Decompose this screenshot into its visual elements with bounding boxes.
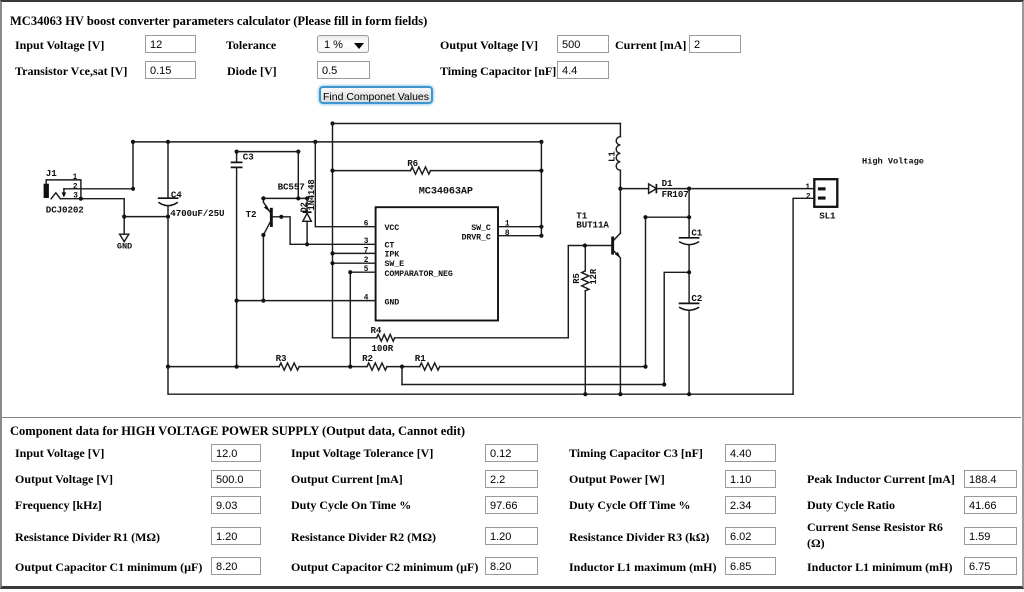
svg-text:1: 1 <box>805 184 810 192</box>
junction rail2 right end <box>539 140 543 144</box>
resistor R2 <box>299 353 387 370</box>
svg-text:2: 2 <box>73 184 78 192</box>
svg-text:12R: 12R <box>589 268 599 284</box>
junction railC at R5 <box>583 392 587 396</box>
svg-text:SW_C: SW_C <box>471 224 491 233</box>
junction railC at T1 <box>618 392 622 396</box>
svg-text:R4: R4 <box>371 325 382 336</box>
junction railA at pin5 <box>348 365 352 369</box>
junction rail2 at VCC drop <box>313 140 317 144</box>
svg-text:High Voltage: High Voltage <box>862 157 924 167</box>
capacitor C4 electrolytic <box>158 142 225 367</box>
wire pin6 VCC <box>315 142 375 227</box>
junction D2 top node <box>296 196 300 200</box>
junction rail2 left corner <box>131 140 135 144</box>
svg-text:C3: C3 <box>243 151 254 162</box>
svg-text:R3: R3 <box>276 353 287 364</box>
svg-text:4700uF/25U: 4700uF/25U <box>170 208 224 219</box>
junction railC at C2 <box>687 392 691 396</box>
wire GND node horizontal <box>124 216 168 218</box>
junction tap2 at C1C2 <box>687 270 691 274</box>
wire feedback tap lower <box>664 272 689 384</box>
junction T2 emitter node <box>261 196 265 200</box>
junction C3 top stub <box>235 150 239 154</box>
svg-text:IPK: IPK <box>385 250 400 259</box>
wire pin2 SW_E <box>333 262 376 264</box>
svg-text:SL1: SL1 <box>819 210 836 221</box>
junction rail1 left end <box>330 121 334 125</box>
wire pin7 IPK <box>333 252 376 254</box>
junction GND line at C3 <box>235 299 239 303</box>
resistor R6 <box>333 158 542 174</box>
ground symbol GND <box>117 217 132 252</box>
wire SL1 pin2 return <box>793 198 814 394</box>
wire boost rail (top) <box>333 123 621 125</box>
svg-text:SW_E: SW_E <box>385 260 405 269</box>
resistor R1 <box>387 353 645 370</box>
junction tap1 at C1 <box>687 215 691 219</box>
junction J1 pin2 corner <box>131 187 135 191</box>
svg-text:J1: J1 <box>46 168 57 179</box>
wire divider drop <box>401 367 403 385</box>
junction D2 at CT line <box>305 242 309 246</box>
wire pin3 CT <box>290 243 376 245</box>
resistor R5 12R <box>572 246 599 395</box>
diode D1 FR107 <box>620 178 814 200</box>
transistor T1 BUT11A <box>576 210 620 394</box>
svg-text:GND: GND <box>385 299 400 308</box>
wire feedback bus vertical <box>332 124 334 338</box>
svg-text:100R: 100R <box>372 343 394 354</box>
svg-text:CT: CT <box>385 242 395 251</box>
IC pin numbers <box>364 220 510 302</box>
op-amp U1 MC34063AP box <box>376 207 498 320</box>
junction R6 rail left <box>330 169 334 173</box>
junction railA left <box>166 365 170 369</box>
svg-text:GND: GND <box>117 241 132 251</box>
junction R6 rail right <box>539 169 543 173</box>
junction railB right <box>662 382 666 386</box>
wire J1 pin3 to GND node <box>60 199 124 217</box>
svg-text:COMPARATOR_NEG: COMPARATOR_NEG <box>385 270 453 279</box>
junction SW_C node <box>539 225 543 229</box>
wire rail mid <box>402 384 664 386</box>
junction railA right <box>643 365 647 369</box>
junction T1 base node <box>583 243 587 247</box>
wire J1 pin2 to input rail <box>64 142 133 189</box>
svg-text:MC34063AP: MC34063AP <box>419 186 473 197</box>
junction GND at C4 <box>166 215 170 219</box>
junction pin5 corner <box>348 270 352 274</box>
resistor R3 <box>168 353 299 370</box>
wire pin4 GND <box>237 300 376 302</box>
svg-text:C4: C4 <box>171 190 182 201</box>
junction rail2 at C4 <box>166 140 170 144</box>
junction C3 corner <box>296 150 300 154</box>
svg-text:DRVR_C: DRVR_C <box>462 233 491 242</box>
svg-text:2: 2 <box>806 193 811 201</box>
junction railA at divider <box>400 365 404 369</box>
wire pin5 COMPARATOR_NEG <box>350 272 375 366</box>
svg-text:2: 2 <box>364 257 369 265</box>
junction L1/D1 node <box>618 187 622 191</box>
wire C3 top to D2 node <box>237 152 299 199</box>
svg-text:R5: R5 <box>572 273 582 283</box>
junction GND node <box>122 215 126 219</box>
junction J1 pin1-pin3 <box>79 197 83 201</box>
svg-text:8: 8 <box>505 230 510 238</box>
svg-text:T2: T2 <box>246 209 257 220</box>
capacitor C1 <box>679 189 703 304</box>
junction output node at C1 <box>687 187 691 191</box>
capacitor C2 <box>679 293 703 394</box>
wire pin1 SW_C <box>498 226 541 228</box>
junction T2 base node <box>279 215 283 219</box>
connector SL1 <box>805 179 837 221</box>
capacitor C3 <box>231 151 255 366</box>
svg-text:L1: L1 <box>606 151 617 162</box>
svg-text:BUT11A: BUT11A <box>576 220 609 231</box>
svg-text:FR107: FR107 <box>662 189 689 200</box>
svg-text:4: 4 <box>364 295 369 303</box>
transistor T2 BC557 <box>246 182 305 301</box>
junction bus at IPK <box>330 251 334 255</box>
connector J1 barrel jack <box>44 168 84 215</box>
inductor L1 <box>606 124 620 234</box>
wire switch bus vertical <box>540 142 542 236</box>
junction D2 anode top <box>305 196 309 200</box>
svg-text:R6: R6 <box>407 158 418 169</box>
junction T2 collector bend <box>261 233 265 237</box>
diode D2 1N4148 <box>300 179 318 244</box>
wire R4 to T1 base <box>568 246 611 338</box>
wire pin8 DRVR_C <box>498 235 541 237</box>
junction railA at C3 <box>235 365 239 369</box>
svg-text:D1: D1 <box>662 178 673 189</box>
svg-text:DCJ0202: DCJ0202 <box>46 204 84 215</box>
svg-text:VCC: VCC <box>385 224 400 233</box>
wire T2 emitter top <box>263 197 307 199</box>
resistor R4 100R <box>333 325 569 354</box>
svg-text:7: 7 <box>364 247 369 255</box>
IC pin names <box>385 224 491 308</box>
wire feedback tap upper <box>646 217 690 366</box>
wire VIN rail (upper) <box>133 141 541 143</box>
junction bus at SW_E <box>330 261 334 265</box>
junction tap1 left <box>643 215 647 219</box>
svg-text:1: 1 <box>73 174 78 182</box>
svg-text:C1: C1 <box>691 227 702 238</box>
svg-text:BC557: BC557 <box>278 182 305 193</box>
junction T2 collector at GND line <box>261 299 265 303</box>
svg-text:C2: C2 <box>691 293 702 304</box>
junction DRVR_C node <box>539 234 543 238</box>
wire ground rail bottom <box>168 367 793 395</box>
svg-text:R1: R1 <box>415 353 426 364</box>
svg-text:R2: R2 <box>362 353 373 364</box>
